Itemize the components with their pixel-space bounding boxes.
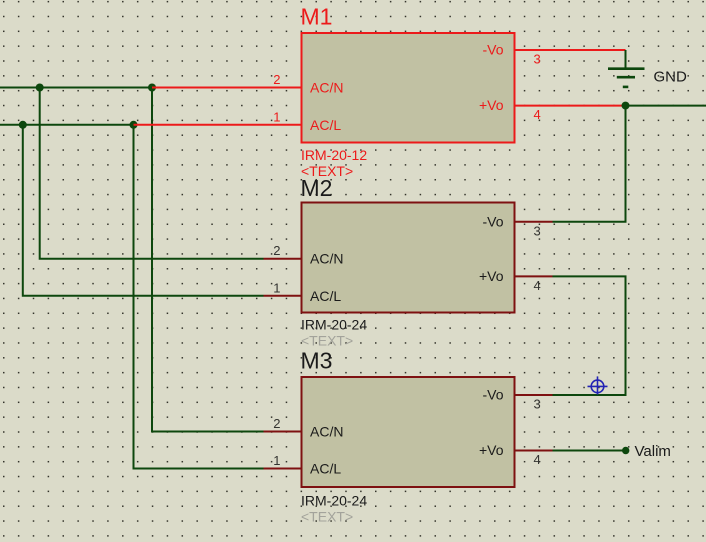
ground GND [608, 50, 687, 87]
junction rail/M2-ACL [19, 121, 27, 129]
svg-text:AC/N: AC/N [310, 80, 343, 96]
wire AC/N rail [0, 87, 152, 89]
pin 4 stub M3 [514, 450, 553, 452]
svg-text:-Vo: -Vo [482, 213, 503, 229]
svg-text:+Vo: +Vo [479, 268, 504, 284]
svg-text:Valim: Valim [635, 443, 671, 460]
pin 3 stub M2 [514, 221, 553, 223]
svg-text:AC/N: AC/N [310, 424, 343, 440]
svg-text:AC/N: AC/N [310, 251, 343, 267]
wire +Vo trunk right [626, 105, 706, 107]
wire rail to M2 AC/N [40, 88, 264, 259]
svg-text:2: 2 [273, 72, 280, 87]
wire M2 pin4 to M3 pin3 [553, 276, 626, 395]
svg-text:GND: GND [654, 69, 688, 86]
svg-text:-Vo: -Vo [482, 387, 503, 403]
node Valim [622, 443, 671, 460]
wire rail to M3 AC/L [134, 125, 264, 469]
junction +Vo trunk [622, 102, 630, 110]
pin 1 stub M3 [264, 468, 303, 470]
pin 2 stub M3 [264, 431, 303, 433]
svg-text:2: 2 [273, 416, 280, 431]
svg-text:1: 1 [273, 453, 280, 468]
wire trunk down to M2 pin3 [553, 106, 626, 222]
wire M1 pin3 to GND (highlighted) [515, 49, 626, 51]
pin 3 stub M3 [514, 394, 553, 396]
junction rail/M3-ACL [130, 121, 138, 129]
pin 4 stub M2 [514, 275, 553, 277]
pin 1 stub M2 [264, 295, 303, 297]
module M2 (IRM-20-24) [264, 175, 553, 349]
svg-text:IRM-20-24: IRM-20-24 [301, 317, 367, 333]
svg-text:+Vo: +Vo [479, 442, 504, 458]
svg-text:1: 1 [273, 109, 280, 124]
svg-text:2: 2 [273, 243, 280, 258]
svg-text:AC/L: AC/L [310, 288, 341, 304]
junction rail/M3-ACN [148, 84, 156, 92]
module M1 (selected, IRM-20-12) [273, 4, 540, 180]
origin marker [588, 376, 608, 394]
svg-text:3: 3 [534, 52, 541, 67]
svg-text:4: 4 [534, 278, 541, 293]
svg-text:M2: M2 [301, 175, 333, 201]
wire AC/L rail [0, 124, 134, 126]
wire M1 pin4 +Vo (highlighted) [515, 105, 626, 107]
svg-text:M3: M3 [301, 348, 333, 374]
svg-text:AC/L: AC/L [310, 461, 341, 477]
svg-text:4: 4 [534, 107, 541, 122]
svg-text:-Vo: -Vo [482, 42, 503, 58]
module M3 (IRM-20-24) [264, 348, 553, 525]
svg-text:M1: M1 [301, 4, 333, 30]
svg-text:+Vo: +Vo [479, 97, 504, 113]
svg-text:1: 1 [273, 280, 280, 295]
svg-text:4: 4 [534, 452, 541, 467]
junction rail/M2-ACN [36, 84, 44, 92]
svg-text:3: 3 [534, 397, 541, 412]
wire M1 AC/L (highlighted) [134, 124, 303, 126]
svg-text:3: 3 [534, 223, 541, 238]
wire rail to M3 AC/N [152, 88, 264, 432]
svg-text:<TEXT>: <TEXT> [301, 333, 353, 349]
wire rail to M2 AC/L [23, 125, 264, 296]
pin 2 stub M2 [264, 258, 303, 260]
wire M3 pin4 to Valim [553, 450, 626, 452]
svg-text:AC/L: AC/L [310, 117, 341, 133]
svg-text:<TEXT>: <TEXT> [301, 509, 353, 525]
svg-text:IRM-20-24: IRM-20-24 [301, 493, 367, 509]
wire M1 AC/N (highlighted) [152, 87, 303, 89]
svg-text:IRM-20-12: IRM-20-12 [301, 147, 367, 163]
